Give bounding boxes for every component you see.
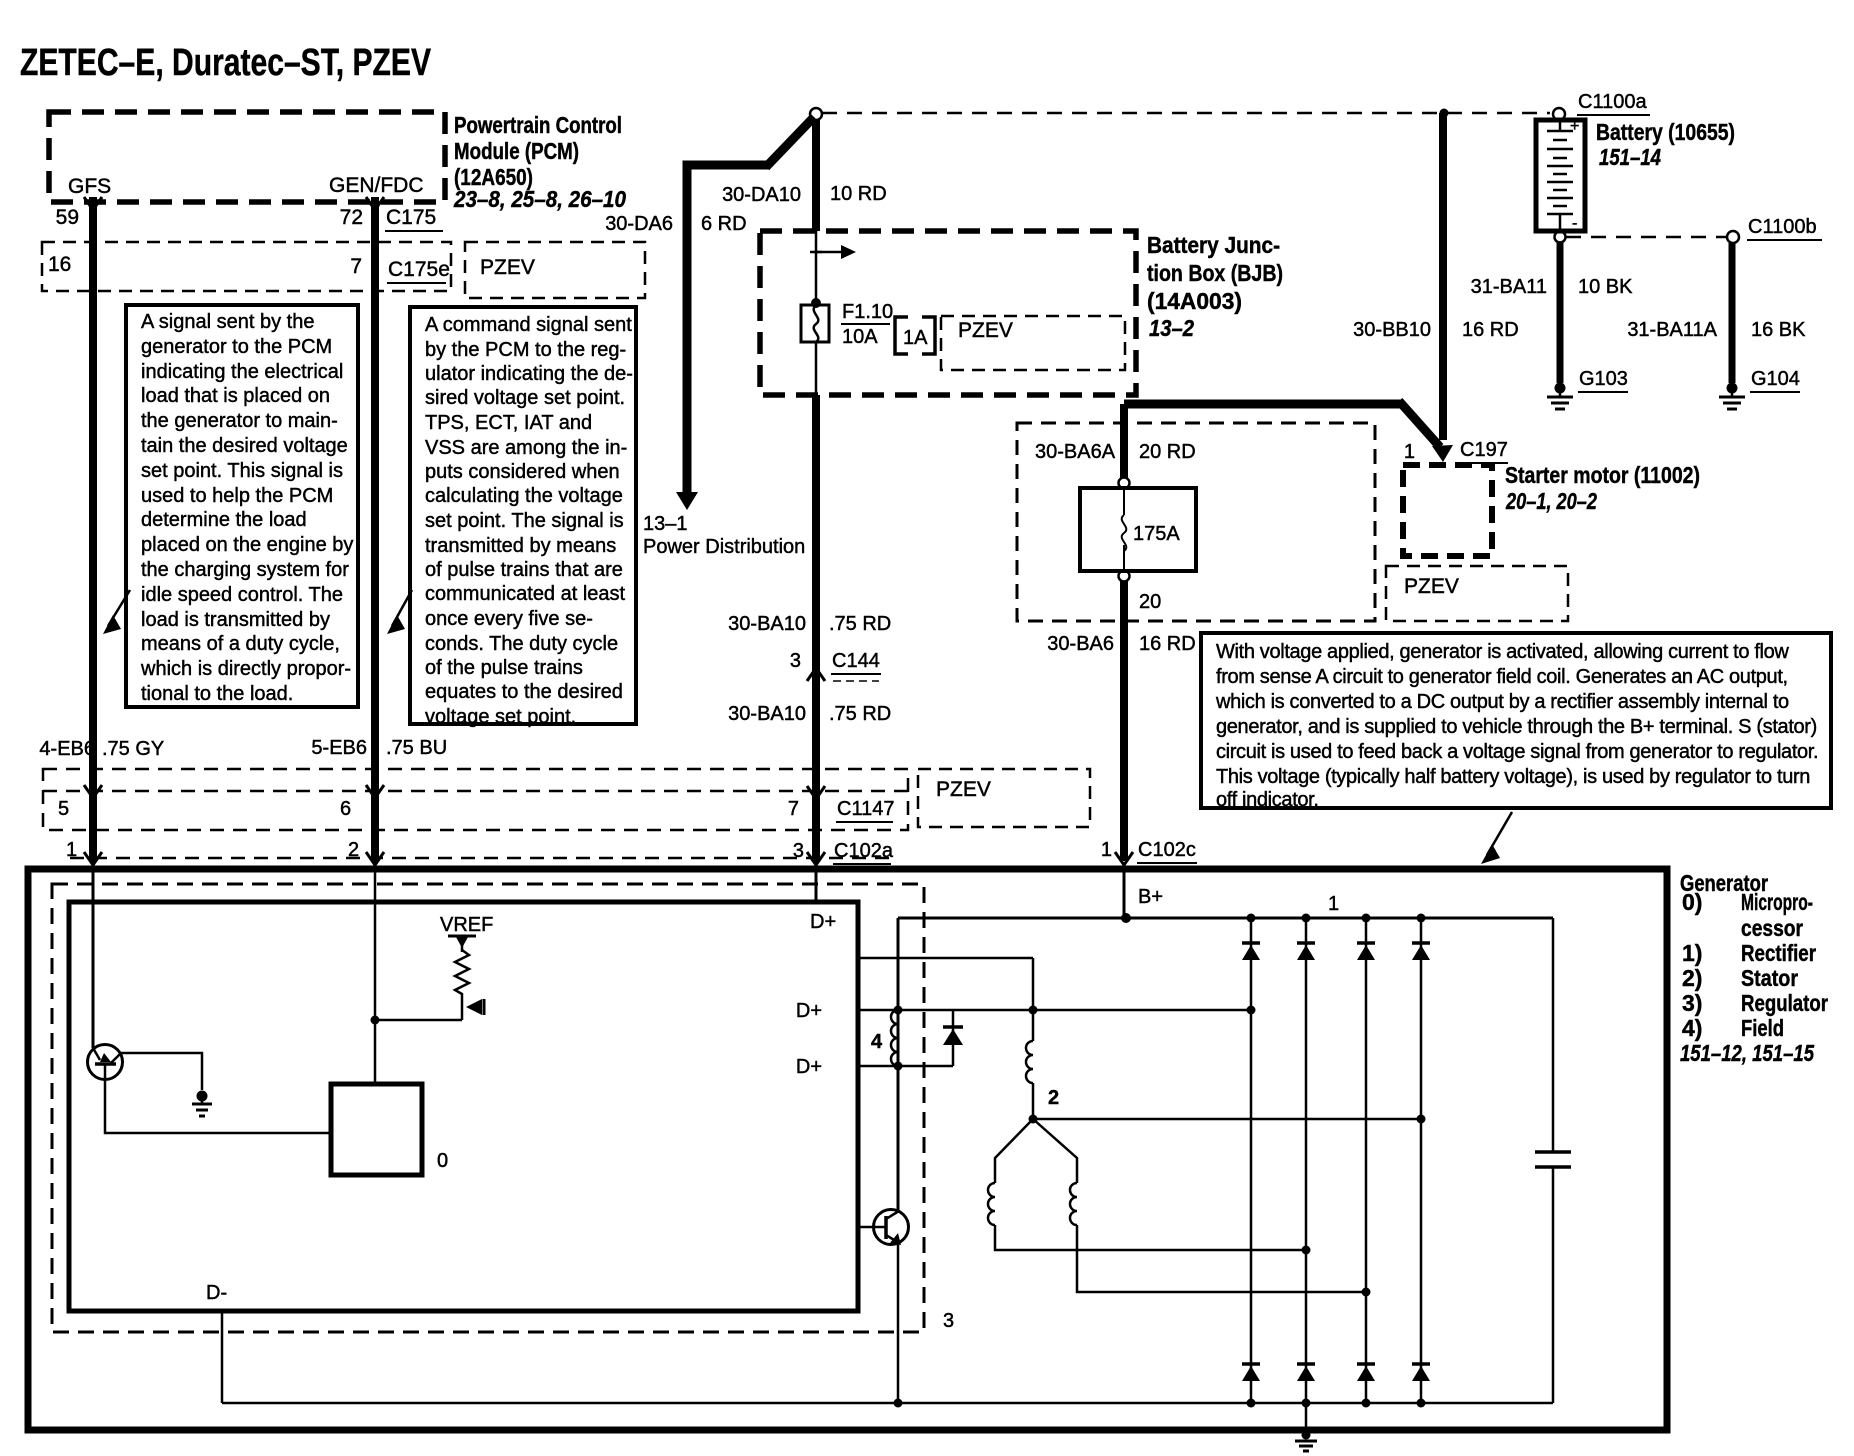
- svg-text:Micropro-: Micropro-: [1741, 889, 1813, 915]
- svg-text:.75 RD: .75 RD: [829, 613, 891, 635]
- battery name label: [1596, 119, 1735, 170]
- svg-text:59: 59: [56, 206, 79, 229]
- svg-text:30-BB10: 30-BB10: [1353, 319, 1431, 341]
- svg-text:VSS are among the in-: VSS are among the in-: [425, 437, 627, 459]
- svg-text:circuit is used to feed back a: circuit is used to feed back a voltage s…: [1216, 741, 1818, 763]
- svg-text:30-BA10: 30-BA10: [728, 703, 806, 725]
- connector C175e row box: [42, 242, 451, 291]
- battery bottom node: [1555, 232, 1566, 243]
- svg-text:communicated at least: communicated at least: [425, 583, 626, 605]
- svg-text:6 RD: 6 RD: [701, 213, 747, 235]
- svg-text:ulator indicating the de-: ulator indicating the de-: [425, 363, 633, 385]
- svg-text:10A: 10A: [842, 326, 878, 348]
- svg-text:1: 1: [1328, 893, 1339, 915]
- svg-text:30-DA6: 30-DA6: [605, 213, 673, 235]
- wire in-line fuse feed: [1124, 400, 1402, 409]
- svg-text:16 RD: 16 RD: [1462, 319, 1519, 341]
- svg-text:5: 5: [58, 798, 69, 820]
- wire GFS inside generator: [92, 861, 95, 1048]
- connector C175 label: [385, 206, 443, 231]
- svg-text:equates to the desired: equates to the desired: [425, 681, 623, 703]
- PZEV box in BJB: [941, 316, 1125, 370]
- svg-text:Field: Field: [1741, 1015, 1784, 1041]
- svg-text:5-EB6: 5-EB6: [311, 737, 367, 759]
- svg-text:ZETEC–E, Duratec–ST, PZEV: ZETEC–E, Duratec–ST, PZEV: [20, 42, 432, 84]
- arrow to note box 1: [108, 590, 130, 626]
- wire left rail down: [897, 918, 900, 1212]
- svg-text:20–1, 20–2: 20–1, 20–2: [1505, 488, 1597, 514]
- fuse top node: [1119, 478, 1130, 489]
- stator phase line: [1033, 1118, 1421, 1121]
- generator ground: [1295, 1403, 1317, 1451]
- svg-text:calculating the voltage: calculating the voltage: [425, 485, 623, 507]
- wire 30-DA10 upper: [812, 119, 820, 231]
- svg-text:load that is placed on: load that is placed on: [141, 385, 330, 407]
- node junction circle: [810, 108, 822, 120]
- svg-text:Regulator: Regulator: [1741, 990, 1828, 1016]
- ground G103: [1547, 368, 1628, 409]
- svg-text:B+: B+: [1138, 886, 1163, 908]
- svg-text:7: 7: [788, 798, 799, 820]
- capacitor: [1535, 918, 1571, 1403]
- dashed wire to C1100b: [1566, 236, 1726, 239]
- svg-text:Stator: Stator: [1741, 965, 1798, 991]
- svg-text:4: 4: [871, 1031, 883, 1053]
- resistor VREF: [455, 950, 469, 1020]
- svg-text:Powertrain Control: Powertrain Control: [454, 112, 622, 138]
- svg-text:generator to the PCM: generator to the PCM: [141, 336, 332, 358]
- connector C1100b: [1727, 216, 1822, 243]
- svg-text:7: 7: [350, 255, 362, 278]
- arrow on GEN/FDC wire at C1147: [366, 785, 384, 798]
- svg-text:PZEV: PZEV: [958, 319, 1013, 342]
- D+ line 1: [858, 1009, 1251, 1012]
- connector C175e label: [387, 258, 450, 283]
- wire 31-BA11: [1557, 242, 1564, 383]
- svg-text:16 RD: 16 RD: [1139, 633, 1196, 655]
- connector label C1147: [836, 798, 894, 822]
- wire GEN/FDC pin 72 vertical: [371, 197, 379, 861]
- junction dot stator/D+: [1029, 1006, 1038, 1015]
- svg-text:C102c: C102c: [1138, 839, 1196, 861]
- arrow at C102a: [807, 852, 825, 865]
- note box 2: [410, 307, 636, 728]
- fuse F1.10 junction dot: [811, 298, 821, 308]
- svg-text:cessor: cessor: [1741, 915, 1803, 941]
- svg-text:30-BA6: 30-BA6: [1047, 633, 1114, 655]
- svg-text:D+: D+: [796, 1000, 822, 1022]
- svg-text:C1147: C1147: [837, 798, 894, 820]
- svg-text:151–14: 151–14: [1599, 144, 1661, 170]
- wire 30-BA10 lower: [812, 395, 820, 861]
- wire 30-DA6 (to power distribution): [676, 165, 770, 510]
- svg-text:which is directly propor-: which is directly propor-: [140, 658, 351, 680]
- PZEV box top: [465, 242, 645, 298]
- arrow at C102c: [1115, 852, 1133, 865]
- arrow on GEN/FDC wire at C102a: [366, 852, 384, 865]
- svg-text:sired voltage set point.: sired voltage set point.: [425, 387, 625, 409]
- wire 31-BA11A: [1729, 243, 1736, 383]
- dashed wire node to battery: [822, 112, 1550, 115]
- svg-text:31-BA11: 31-BA11: [1471, 276, 1547, 298]
- wire through BJB: [815, 231, 818, 305]
- svg-text:TPS, ECT, IAT and: TPS, ECT, IAT and: [425, 412, 592, 434]
- svg-text:1A: 1A: [903, 327, 928, 349]
- arrow on GFS wire at C102a: [84, 852, 102, 865]
- svg-text:which is converted to a DC out: which is converted to a DC output by a r…: [1215, 691, 1789, 713]
- connector label C197: [1459, 439, 1508, 463]
- svg-text:of pulse trains that are: of pulse trains that are: [425, 559, 623, 581]
- svg-text:by the PCM to the reg-: by the PCM to the reg-: [425, 339, 626, 361]
- 1A bracket box: [895, 317, 935, 354]
- svg-text:30-BA6A: 30-BA6A: [1035, 441, 1116, 463]
- transistor Q2: [858, 1210, 909, 1246]
- svg-text:transmitted by means: transmitted by means: [425, 535, 616, 557]
- starter motor box: [1403, 465, 1492, 556]
- connector label C102c: [1137, 839, 1197, 863]
- transistor Q1: [88, 1045, 123, 1081]
- svg-text:13–1: 13–1: [643, 513, 688, 535]
- svg-text:1: 1: [1404, 441, 1415, 463]
- wire diagonal to node: [766, 117, 814, 167]
- D+ line 2: [858, 1065, 953, 1068]
- svg-text:.75 RD: .75 RD: [829, 703, 891, 725]
- svg-text:This voltage (typically half b: This voltage (typically half battery vol…: [1216, 766, 1810, 788]
- microprocessor box 0: [331, 1084, 422, 1175]
- BJB name label: [1147, 232, 1283, 341]
- svg-text:16: 16: [48, 253, 71, 276]
- wire GFS pin 59 vertical: [89, 197, 97, 861]
- svg-text:PZEV: PZEV: [1404, 575, 1459, 598]
- svg-text:30-BA10: 30-BA10: [728, 613, 806, 635]
- svg-text:placed on the engine by: placed on the engine by: [141, 534, 353, 556]
- svg-text:23–8, 25–8, 26–10: 23–8, 25–8, 26–10: [453, 186, 626, 212]
- ground inside regulator: [192, 1091, 212, 1117]
- D+ sense line upper: [858, 957, 1033, 960]
- svg-text:C197: C197: [1460, 439, 1508, 461]
- fuse F1.10: [801, 305, 829, 342]
- svg-text:puts considered when: puts considered when: [425, 461, 620, 483]
- svg-text:.75 GY: .75 GY: [102, 738, 164, 760]
- svg-text:20: 20: [1139, 591, 1161, 613]
- svg-text:load is transmitted by: load is transmitted by: [141, 609, 330, 631]
- generator legend list: [1680, 889, 1828, 1066]
- rectifier column 2: [1297, 914, 1315, 1408]
- junction dot wire2: [371, 1016, 380, 1025]
- label 13-1 Power Distribution: [643, 513, 805, 558]
- svg-text:175A: 175A: [1133, 523, 1180, 545]
- svg-text:idle speed control. The: idle speed control. The: [141, 584, 343, 606]
- svg-text:GFS: GFS: [68, 175, 111, 198]
- note box 1: [126, 305, 358, 707]
- svg-text:31-BA11A: 31-BA11A: [1627, 319, 1717, 341]
- feed arrow inside BJB: [810, 245, 856, 259]
- svg-text:voltage set point.: voltage set point.: [425, 706, 576, 728]
- arrow on GEN/FDC wire at PCM exit: [366, 197, 384, 210]
- VREF terminal: [440, 914, 493, 952]
- wire 30-BA6: [1120, 581, 1128, 861]
- svg-text:C1100a: C1100a: [1578, 91, 1647, 113]
- svg-text:151–12, 151–15: 151–12, 151–15: [1680, 1040, 1815, 1066]
- svg-text:72: 72: [340, 206, 363, 229]
- svg-text:+: +: [1570, 118, 1579, 135]
- svg-text:C175e: C175e: [388, 258, 450, 281]
- flyback diode: [943, 1010, 963, 1066]
- svg-text:-: -: [1572, 215, 1577, 232]
- svg-text:Module (PCM): Module (PCM): [454, 138, 579, 164]
- svg-text:of the pulse trains: of the pulse trains: [425, 657, 583, 679]
- note box 3: [1201, 633, 1831, 811]
- arrow into starter C197: [1432, 445, 1453, 462]
- svg-text:C1100b: C1100b: [1748, 216, 1817, 238]
- svg-text:A signal sent by the: A signal sent by the: [141, 311, 314, 333]
- stator Y junction: [1029, 1115, 1038, 1124]
- svg-text:.75 BU: .75 BU: [386, 737, 447, 759]
- arrow from note box 3: [1481, 812, 1512, 864]
- svg-text:the charging system for: the charging system for: [141, 559, 349, 581]
- svg-text:6: 6: [340, 798, 351, 820]
- svg-text:from sense A circuit to genera: from sense A circuit to generator field …: [1216, 666, 1788, 688]
- wire into fuse: [1120, 404, 1128, 478]
- svg-text:1: 1: [1101, 839, 1112, 861]
- fuse bottom node: [1119, 571, 1130, 582]
- svg-text:0: 0: [437, 1150, 448, 1172]
- svg-text:30-DA10: 30-DA10: [722, 184, 801, 206]
- wire to VREF resistor: [375, 1019, 462, 1022]
- junction dot B+ entry: [1121, 913, 1131, 923]
- svg-text:D+: D+: [796, 1056, 822, 1078]
- bottom rail D-: [222, 1402, 1553, 1405]
- in-line fuse body 175A: [1080, 488, 1196, 571]
- junction dot 30-BB10: [1440, 109, 1449, 118]
- wire Q1 collector to ground: [121, 1053, 202, 1090]
- svg-text:used to help the PCM: used to help the PCM: [141, 485, 333, 507]
- arrow to note box 2: [392, 590, 412, 626]
- svg-text:3: 3: [943, 1310, 954, 1332]
- battery 10655: [1536, 118, 1585, 232]
- svg-text:16 BK: 16 BK: [1751, 319, 1806, 341]
- wire Q1 emitter to microprocessor: [105, 1080, 331, 1133]
- rectifier column 1: [1242, 914, 1260, 1408]
- wire D- from regulator to bottom rail: [221, 1311, 224, 1403]
- svg-text:2: 2: [1048, 1087, 1059, 1109]
- svg-text:GEN/FDC: GEN/FDC: [329, 174, 424, 197]
- arrow at C1147: [807, 786, 825, 799]
- svg-text:indicating the electrical: indicating the electrical: [141, 361, 343, 383]
- arrow on GFS wire at PCM exit: [84, 197, 102, 210]
- starter motor label: [1505, 462, 1700, 514]
- stator coil top 2: [1026, 1041, 1033, 1083]
- svg-text:Starter motor (11002): Starter motor (11002): [1505, 462, 1700, 488]
- svg-text:10 RD: 10 RD: [830, 183, 887, 205]
- rectifier column 3: [1357, 914, 1375, 1408]
- svg-text:C144: C144: [832, 650, 880, 672]
- svg-text:3): 3): [1682, 990, 1702, 1016]
- svg-text:13–2: 13–2: [1149, 315, 1194, 341]
- svg-text:G103: G103: [1579, 368, 1628, 390]
- svg-text:PZEV: PZEV: [936, 778, 991, 801]
- wire B+ into generator: [1123, 865, 1126, 918]
- svg-text:F1.10: F1.10: [842, 301, 893, 323]
- field coil 4: [871, 1006, 903, 1071]
- svg-text:D+: D+: [810, 911, 836, 933]
- PZEV box starter: [1386, 566, 1568, 621]
- svg-text:set point. This signal is: set point. This signal is: [141, 460, 343, 482]
- battery junction box BJB: [760, 231, 1136, 395]
- regulator dashed box: [52, 884, 924, 1332]
- stator right leg: [1033, 1119, 1077, 1183]
- fuse label F1.10 / 10A: [841, 301, 893, 348]
- svg-text:tain the desired voltage: tain the desired voltage: [141, 435, 348, 457]
- svg-text:off indicator.: off indicator.: [1216, 789, 1319, 811]
- wire GEN/FDC inside generator: [374, 861, 377, 1084]
- wire B+ rail: [898, 917, 1553, 920]
- svg-text:4): 4): [1682, 1015, 1702, 1041]
- svg-text:C175: C175: [386, 206, 436, 229]
- svg-text:Rectifier: Rectifier: [1741, 940, 1816, 966]
- svg-text:the generator to main-: the generator to main-: [141, 410, 338, 432]
- comparator arrow at resistor: [466, 999, 484, 1015]
- svg-text:20 RD: 20 RD: [1139, 441, 1196, 463]
- stator left leg: [995, 1119, 1033, 1183]
- PZEV box at C1147: [918, 769, 1090, 827]
- wire 30-BB10: [1439, 113, 1447, 440]
- wire diagonal to C197: [1399, 401, 1440, 447]
- svg-text:G104: G104: [1751, 368, 1800, 390]
- connector C144: [790, 650, 881, 681]
- connector C102a line: [70, 857, 895, 860]
- svg-text:A command signal sent: A command signal sent: [425, 314, 632, 336]
- junction dot left rail bottom: [894, 1399, 903, 1408]
- svg-text:2): 2): [1682, 965, 1702, 991]
- connector C1100a: [1553, 91, 1650, 120]
- stator feed corner: [1032, 958, 1035, 1041]
- regulator inner solid box: [69, 902, 858, 1311]
- svg-text:Battery (10655): Battery (10655): [1596, 119, 1735, 145]
- connector label C102a: [833, 840, 894, 864]
- svg-text:conds. The duty cycle: conds. The duty cycle: [425, 633, 618, 655]
- PCM module box (12A650): [49, 112, 445, 202]
- svg-text:Power Distribution: Power Distribution: [643, 536, 805, 558]
- svg-text:Battery Junc-: Battery Junc-: [1147, 232, 1280, 258]
- svg-text:PZEV: PZEV: [480, 256, 535, 279]
- in-line fuse box: [1017, 423, 1375, 621]
- wire D+ entry into regulator: [815, 861, 818, 902]
- svg-text:determine the load: determine the load: [141, 509, 307, 531]
- svg-text:once every five se-: once every five se-: [425, 608, 593, 630]
- svg-text:With voltage applied, generato: With voltage applied, generator is activ…: [1216, 641, 1789, 663]
- svg-text:10 BK: 10 BK: [1578, 276, 1633, 298]
- svg-text:set point. The signal is: set point. The signal is: [425, 510, 624, 532]
- svg-text:tional to the load.: tional to the load.: [141, 683, 293, 705]
- svg-text:generator, and is supplied to: generator, and is supplied to vehicle th…: [1216, 716, 1817, 738]
- svg-text:tion Box (BJB): tion Box (BJB): [1147, 260, 1283, 286]
- rectifier column 4: [1412, 914, 1430, 1408]
- svg-text:means of a duty cycle,: means of a duty cycle,: [141, 633, 340, 655]
- generator outer box: [28, 869, 1667, 1430]
- svg-text:(14A003): (14A003): [1147, 288, 1242, 314]
- svg-text:0): 0): [1682, 889, 1702, 915]
- PCM name label: [453, 112, 626, 212]
- svg-text:D-: D-: [206, 1282, 227, 1304]
- svg-text:1): 1): [1682, 940, 1702, 966]
- connector C1147 box: [43, 769, 908, 830]
- svg-text:4-EB6: 4-EB6: [39, 738, 95, 760]
- ground G104: [1719, 368, 1800, 409]
- svg-text:VREF: VREF: [440, 914, 493, 936]
- arrow on GFS wire at C1147: [84, 785, 102, 798]
- svg-text:3: 3: [790, 650, 801, 672]
